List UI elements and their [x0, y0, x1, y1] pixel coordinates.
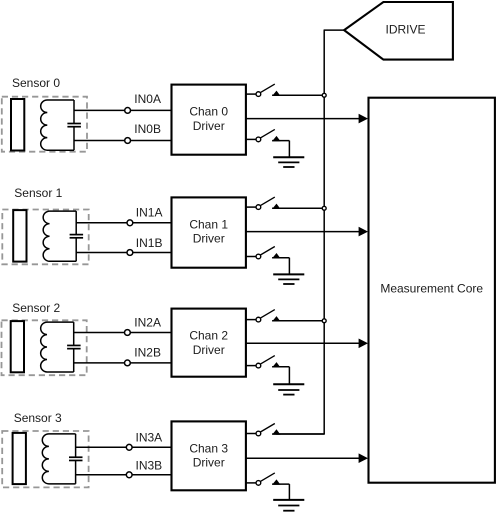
switch fixed contact triangle	[272, 204, 280, 209]
ground stem chan 0	[288, 141, 290, 158]
chan 3 ground switch	[246, 482, 259, 484]
svg-text:Driver: Driver	[193, 119, 225, 133]
svg-text:IN3A: IN3A	[136, 431, 163, 445]
switch lever	[260, 197, 274, 206]
terminal node IN2A	[125, 330, 131, 336]
switch pivot circle	[256, 431, 261, 436]
wire IN2B: coil to driver	[74, 362, 172, 364]
sensor 0 coil inductor L	[41, 100, 74, 150]
terminal node IN0B	[125, 138, 131, 144]
svg-text:IN1A: IN1A	[136, 206, 163, 220]
sensor 0 tank capacitor C	[73, 100, 75, 124]
arrowhead chan 0	[359, 114, 368, 124]
terminal node IN3B	[126, 472, 132, 478]
switch pivot circle	[256, 254, 261, 259]
switch lever	[260, 356, 274, 365]
svg-text:Driver: Driver	[193, 456, 225, 470]
chan 2 output wire to Measurement Core	[246, 342, 359, 344]
Chan 1 Driver block	[172, 197, 246, 267]
switch lever	[260, 247, 274, 256]
terminal node IN0A	[125, 108, 131, 114]
wire IN1B: coil to driver	[76, 252, 171, 254]
sensor 1 dashed boundary box	[2, 210, 88, 265]
terminal node IN3A	[126, 444, 132, 450]
switch pivot circle	[256, 363, 261, 368]
switch pivot circle	[256, 481, 261, 486]
ground symbol chan 1	[273, 273, 304, 275]
terminal node IN2B	[125, 360, 131, 366]
ground symbol chan 2	[273, 383, 304, 385]
wire: switch to ground	[272, 140, 289, 142]
switch lever	[260, 473, 274, 482]
svg-text:Driver: Driver	[193, 232, 225, 246]
Chan 2 Driver block	[172, 309, 246, 377]
chan 3 output wire to Measurement Core	[246, 457, 359, 459]
bus junction node chan 0	[322, 93, 326, 97]
switch pivot circle	[256, 317, 261, 322]
wire: IDRIVE tip to bus	[324, 29, 345, 31]
svg-text:Chan 3: Chan 3	[189, 441, 228, 455]
Chan 3 Driver block	[172, 421, 246, 490]
Chan 0 Driver block	[172, 85, 246, 155]
arrowhead chan 3	[359, 453, 368, 463]
wire: switch to IDRIVE bus	[272, 94, 324, 96]
switch fixed contact triangle	[272, 253, 280, 258]
sensor 3 tank capacitor C	[75, 434, 77, 457]
wire IN3B: coil to driver	[76, 474, 172, 476]
sensor 0 dashed boundary box	[2, 97, 87, 152]
chan 0 output wire to Measurement Core	[246, 118, 359, 120]
sensor 3 conductive target plate	[13, 433, 26, 484]
wire: switch to IDRIVE bus	[272, 320, 324, 322]
ground stem chan 3	[288, 484, 290, 500]
chan 1 IDRIVE switch	[246, 206, 259, 208]
switch pivot circle	[256, 92, 261, 97]
switch fixed contact triangle	[272, 429, 280, 434]
switch fixed contact triangle	[272, 316, 280, 321]
svg-text:Chan 1: Chan 1	[189, 217, 228, 231]
switch pivot circle	[256, 205, 261, 210]
wire: switch to ground	[272, 366, 289, 368]
chan 1 output wire to Measurement Core	[246, 231, 359, 233]
svg-text:IN1B: IN1B	[136, 236, 163, 250]
IDRIVE vertical bus wire	[323, 30, 325, 434]
wire IN3A: coil to driver	[76, 446, 172, 448]
chan 1 ground switch	[246, 256, 259, 258]
svg-text:Sensor 3: Sensor 3	[14, 411, 62, 425]
switch lever	[260, 84, 274, 93]
sensor 3 coil inductor L	[42, 434, 75, 484]
sensor 1 tank capacitor C	[75, 211, 77, 235]
wire: switch to ground	[272, 483, 289, 485]
sensor 2 dashed boundary box	[2, 320, 87, 375]
switch lever	[260, 310, 274, 319]
IDRIVE flag (pentagon pointing left)	[344, 2, 453, 60]
sensor 2 conductive target plate	[11, 321, 24, 372]
wire: switch to IDRIVE bus	[272, 207, 324, 209]
svg-text:Driver: Driver	[193, 343, 225, 357]
ground stem chan 1	[288, 258, 290, 275]
sensor 0 conductive target plate	[11, 99, 24, 151]
svg-text:IN0A: IN0A	[134, 92, 161, 106]
switch fixed contact triangle	[272, 362, 280, 367]
arrowhead chan 1	[359, 227, 368, 237]
svg-text:IN2A: IN2A	[134, 315, 161, 329]
sensor 1 conductive target plate	[13, 210, 26, 262]
Measurement Core block	[369, 98, 495, 483]
switch pivot circle	[256, 137, 261, 142]
svg-text:Chan 0: Chan 0	[189, 105, 228, 119]
ground symbol chan 3	[273, 499, 304, 501]
terminal node IN1B	[127, 250, 133, 256]
wire IN0B: coil to driver	[74, 140, 172, 142]
sensor 1 coil inductor L	[43, 211, 76, 261]
svg-text:IDRIVE: IDRIVE	[386, 23, 426, 37]
svg-text:Sensor 0: Sensor 0	[12, 76, 60, 90]
svg-text:Chan 2: Chan 2	[189, 329, 228, 343]
bus junction node chan 2	[322, 319, 326, 323]
sensor 2 coil inductor L	[41, 322, 74, 372]
switch fixed contact triangle	[272, 91, 280, 96]
svg-text:IN2B: IN2B	[134, 346, 161, 360]
bus junction node chan 1	[322, 206, 326, 210]
svg-text:IN3B: IN3B	[136, 459, 163, 473]
ground symbol chan 0	[273, 156, 304, 158]
wire: switch to ground	[272, 257, 289, 259]
chan 2 ground switch	[246, 365, 259, 367]
chan 0 ground switch	[246, 138, 259, 140]
svg-text:IN0B: IN0B	[134, 122, 161, 136]
svg-text:Sensor 2: Sensor 2	[12, 301, 60, 315]
chan 0 IDRIVE switch	[246, 93, 259, 95]
sensor 2 tank capacitor C	[73, 322, 75, 345]
chan 2 IDRIVE switch	[246, 319, 259, 321]
switch lever	[260, 424, 274, 433]
wire: bus elbow to chan3 top switch	[276, 433, 325, 435]
ground stem chan 2	[288, 367, 290, 384]
wire IN0A: coil to driver	[74, 109, 172, 111]
sensor 3 dashed boundary box	[2, 431, 88, 487]
svg-text:Sensor 1: Sensor 1	[14, 186, 62, 200]
switch fixed contact triangle	[272, 479, 280, 484]
wire: switch to IDRIVE bus	[272, 433, 324, 435]
switch lever	[260, 129, 274, 138]
arrowhead chan 2	[359, 339, 368, 349]
wire IN1A: coil to driver	[76, 222, 171, 224]
svg-text:Measurement Core: Measurement Core	[380, 282, 483, 296]
chan 3 IDRIVE switch	[246, 433, 259, 435]
wire IN2A: coil to driver	[74, 332, 172, 334]
switch fixed contact triangle	[272, 136, 280, 141]
terminal node IN1A	[127, 220, 133, 226]
